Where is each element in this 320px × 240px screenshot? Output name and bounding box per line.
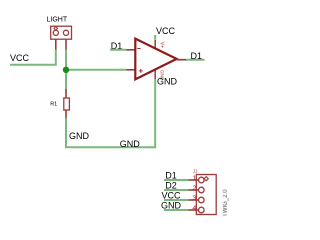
- op-amp U1 input pin - stub: [126, 49, 135, 51]
- resistor R1: [64, 89, 70, 118]
- svg-text:D1: D1: [191, 51, 203, 61]
- wire VCC to J1 pin 3: [164, 199, 189, 201]
- svg-text:V+: V+: [159, 42, 165, 48]
- wire resistor to bottom GND rail: [66, 79, 155, 147]
- wire VCC to op-amp V+ pin: [154, 35, 156, 40]
- svg-text:LIGHT: LIGHT: [47, 17, 68, 24]
- op-amp V+ pin line: [154, 40, 156, 48]
- wire D2 to J1 pin 2: [164, 189, 189, 191]
- svg-text:R1: R1: [50, 102, 57, 108]
- svg-text:VCC: VCC: [156, 26, 176, 36]
- svg-text:GND: GND: [120, 139, 141, 149]
- op-amp output pin stub: [177, 59, 186, 61]
- svg-text:J1: J1: [193, 168, 198, 173]
- wire GND to J1 pin 4: [164, 209, 189, 211]
- LIGHT pin 1 stub: [55, 39, 57, 49]
- connector J1 body: [196, 175, 216, 215]
- wire op-amp output: [186, 59, 205, 61]
- wire D1 to J1 pin 1: [164, 179, 189, 181]
- op-amp U1 triangle: [135, 39, 176, 80]
- op-amp - input marker: [137, 48, 140, 50]
- op-amp U1 input pin + stub: [126, 69, 135, 71]
- svg-text:GND: GND: [69, 131, 90, 141]
- J1 pin 2 line: [189, 189, 199, 191]
- J1 pin 3 line: [189, 199, 199, 201]
- J1 pin 4 line: [189, 209, 199, 211]
- wire junction to op-amp + input: [66, 69, 126, 71]
- op-amp + input marker: [139, 69, 143, 73]
- LIGHT pin 2 stub: [65, 39, 67, 49]
- connector LIGHT body: [51, 26, 72, 39]
- wire D1 to op-amp - input: [110, 49, 126, 51]
- wire VCC rail to LIGHT pin 1: [10, 49, 56, 64]
- svg-text:VCC: VCC: [10, 53, 30, 63]
- wire LIGHT pin 2 down to resistor: [65, 49, 67, 89]
- svg-text:GND: GND: [157, 77, 178, 87]
- junction node: [63, 67, 69, 73]
- J1 pin 1 line: [189, 179, 199, 181]
- op-amp GND pin line: [154, 71, 156, 80]
- svg-text:TWIG_2.0: TWIG_2.0: [223, 189, 229, 217]
